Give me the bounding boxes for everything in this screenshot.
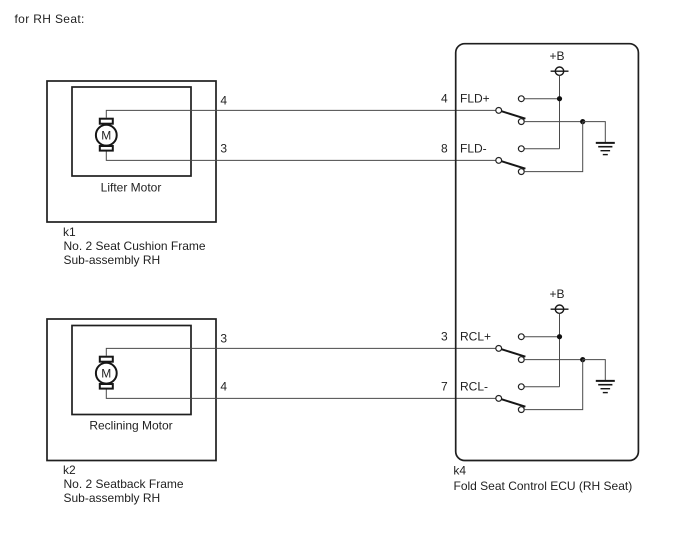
connector box k1 (No. 2 Seat Cushion Frame Sub-assembly RH) outer box: [47, 81, 216, 222]
power symbol B2 circle: [555, 305, 563, 313]
wire: lifter motor - terminal to pin 3: [106, 152, 496, 161]
wire: reclining motor + terminal to pin 3: [106, 348, 496, 355]
wire: RCL- upper contact to +B line end: [524, 386, 559, 388]
switch S3 pole contact (pin 3 RCL+): [496, 346, 502, 352]
wire: +B supply vertical (FLD): [559, 75, 561, 148]
switch S3 arm: [501, 349, 525, 357]
svg-text:No. 2 Seatback Frame: No. 2 Seatback Frame: [64, 477, 184, 491]
wire: S1 lower throw to ground node: [524, 121, 583, 123]
svg-text:+B: +B: [549, 287, 564, 301]
wire: ground node to ground symbol (FLD): [583, 122, 606, 142]
svg-text:FLD+: FLD+: [460, 92, 490, 106]
node junction dot on +B line (FLD+): [557, 96, 562, 101]
wire: S3 lower throw to ground node: [524, 359, 583, 361]
motor M2 brush (bottom): [100, 384, 113, 389]
svg-text:3: 3: [441, 330, 448, 344]
switch S1 arm: [501, 111, 525, 119]
svg-text:3: 3: [220, 331, 227, 345]
switch S1 lower throw contact (to ground): [518, 119, 524, 125]
svg-text:M: M: [101, 129, 111, 143]
switch S4 lower throw contact (to ground): [518, 407, 524, 413]
svg-text:for RH Seat:: for RH Seat:: [15, 12, 85, 26]
svg-text:Fold Seat Control ECU (RH Seat: Fold Seat Control ECU (RH Seat): [454, 479, 633, 493]
svg-text:4: 4: [441, 92, 448, 106]
switch S3 lower throw contact (to ground): [518, 357, 524, 363]
switch S2 arm: [501, 161, 525, 169]
switch S2 pole contact (pin 8 FLD-): [496, 158, 502, 164]
wire: +B supply vertical (RCL): [559, 313, 561, 386]
node junction dot on +B line (RCL+): [557, 334, 562, 339]
svg-text:Lifter Motor: Lifter Motor: [101, 180, 162, 194]
wire: RCL+ upper contact to +B node: [524, 336, 560, 338]
switch S4 arm: [501, 399, 525, 407]
switch S4 upper throw contact (to +B): [518, 384, 524, 390]
svg-text:k2: k2: [63, 463, 76, 477]
ground symbol G1: [596, 143, 615, 155]
ECU box k4 (Fold Seat Control ECU RH Seat): [456, 44, 639, 461]
wire: FLD- upper contact to +B line end: [524, 148, 559, 150]
svg-text:RCL-: RCL-: [460, 379, 488, 393]
svg-text:k4: k4: [453, 463, 466, 477]
node ground junction dot (RCL): [580, 357, 585, 362]
ground symbol G2: [596, 381, 615, 393]
reclining motor component box (inner box): [72, 326, 191, 415]
switch S2 lower throw contact (to ground): [518, 169, 524, 175]
svg-text:M: M: [101, 367, 111, 381]
lifter motor component box (inner box): [72, 87, 191, 176]
svg-text:Sub-assembly RH: Sub-assembly RH: [64, 491, 161, 505]
power symbol B1 bar: [551, 70, 569, 72]
motor M2 brush (top): [100, 357, 113, 362]
motor M1 brush (top): [100, 119, 113, 124]
wire: FLD+ upper contact to +B node: [524, 98, 560, 100]
svg-text:7: 7: [441, 379, 448, 393]
svg-text:4: 4: [220, 93, 227, 107]
power symbol B2 bar: [551, 308, 569, 310]
svg-text:Sub-assembly RH: Sub-assembly RH: [64, 253, 161, 267]
svg-text:8: 8: [441, 141, 448, 155]
svg-text:RCL+: RCL+: [460, 330, 491, 344]
motor M2 body (Reclining Motor): [96, 363, 117, 384]
connector box k2 (No. 2 Seatback Frame Sub-assembly RH) outer box: [47, 319, 216, 461]
wire: ground node to ground symbol (RCL): [583, 360, 606, 380]
wire: reclining motor - terminal to pin 7: [106, 390, 496, 399]
svg-text:+B: +B: [549, 49, 564, 63]
svg-text:Reclining Motor: Reclining Motor: [89, 418, 172, 432]
wire: S2 lower throw up to ground node: [524, 122, 583, 172]
motor M1 body (Lifter Motor): [96, 125, 117, 146]
svg-text:No. 2 Seat Cushion Frame: No. 2 Seat Cushion Frame: [64, 239, 206, 253]
switch S3 upper throw contact (to +B): [518, 334, 524, 340]
svg-text:k1: k1: [63, 225, 76, 239]
svg-text:4: 4: [220, 379, 227, 393]
switch S4 pole contact (pin 7 RCL-): [496, 396, 502, 402]
switch S1 upper throw contact (to +B): [518, 96, 524, 102]
switch S2 upper throw contact (to +B): [518, 146, 524, 152]
power symbol B1 circle: [555, 67, 563, 75]
node ground junction dot (FLD): [580, 119, 585, 124]
switch S1 pole contact (pin 4 FLD+): [496, 108, 502, 114]
svg-text:3: 3: [220, 141, 227, 155]
svg-text:FLD-: FLD-: [460, 141, 487, 155]
wire: lifter motor + terminal to pin 4: [106, 110, 496, 117]
wire: S4 lower throw up to ground node: [524, 360, 583, 410]
motor M1 brush (bottom): [100, 146, 113, 151]
